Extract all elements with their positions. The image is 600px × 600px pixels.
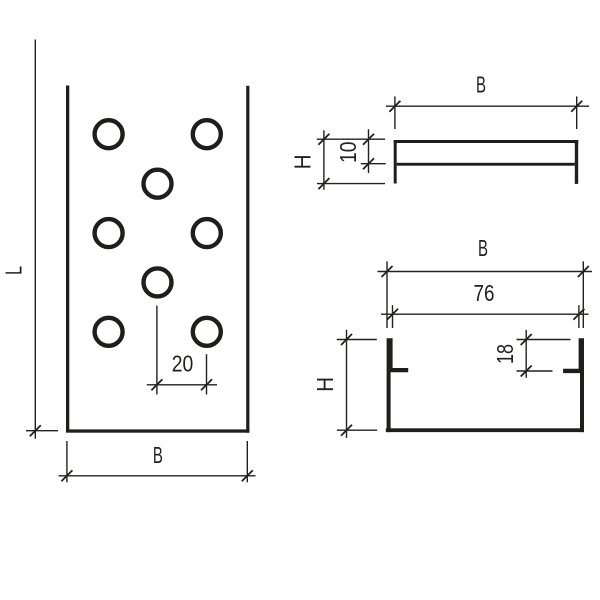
hole row5 right <box>193 318 221 346</box>
svg-text:L: L <box>1 266 27 275</box>
hole row5 left <box>95 318 123 346</box>
hole row1 left <box>95 120 123 148</box>
svg-text:18: 18 <box>492 344 518 364</box>
dimension 76 line <box>381 313 589 315</box>
dimension 10 lower tick <box>363 158 374 169</box>
dimension B plate tick left <box>61 470 72 481</box>
dimension B bottom tick left <box>382 266 393 277</box>
dimension H top view lower tick <box>318 178 329 189</box>
dimension B bottom line <box>378 271 593 273</box>
dimension H bottom view upper extension line <box>337 339 377 341</box>
dimension 20 line <box>147 384 217 386</box>
dimension B top extension line left <box>394 96 396 129</box>
dimension H bottom view lower tick <box>341 425 352 436</box>
dimension B bottom tick right <box>578 266 589 277</box>
dimension H top view line <box>323 130 325 189</box>
dimension 18 upper extension line <box>517 339 571 341</box>
svg-text:B: B <box>153 442 163 468</box>
dimension 76 extension line right <box>578 305 580 328</box>
dimension B bottom extension line left <box>386 261 388 328</box>
top profile left wall <box>394 140 397 184</box>
svg-text:H: H <box>312 377 338 392</box>
svg-text:B: B <box>478 235 488 261</box>
dimension 76 extension line left <box>392 305 394 328</box>
dimension L tick <box>30 425 41 436</box>
hole row4 center <box>144 268 172 296</box>
dimension 76 tick right <box>573 309 584 320</box>
channel right wall with lip <box>563 338 584 432</box>
channel left wall with lip <box>387 338 409 432</box>
svg-text:10: 10 <box>335 142 361 164</box>
dimension 18 lower tick <box>521 366 532 377</box>
dimension 76 tick left <box>387 309 398 320</box>
svg-text:H: H <box>290 154 316 169</box>
dimension 10 upper tick <box>363 134 374 145</box>
svg-text:76: 76 <box>474 280 495 306</box>
dimension 20 extension line left <box>156 306 158 395</box>
plate left edge <box>66 86 69 433</box>
dimension H top view upper extension line <box>317 138 385 140</box>
dimension H bottom view upper tick <box>341 334 352 345</box>
top profile right wall <box>575 140 578 184</box>
dimension 20 tick right <box>201 379 212 390</box>
dimension H bottom view lower extension line <box>337 429 377 431</box>
plate bottom edge <box>66 429 249 432</box>
hole row1 right <box>193 120 221 148</box>
dimension B bottom extension line right <box>582 261 584 328</box>
top profile inner line <box>397 163 575 166</box>
dimension B top tick left <box>389 101 400 112</box>
dimension H bottom view line <box>346 330 348 438</box>
svg-text:B: B <box>476 71 486 97</box>
dimension 18 lower extension line <box>517 370 553 372</box>
hole row2 center <box>144 170 172 198</box>
dimension L line <box>34 40 36 439</box>
top profile top flange <box>394 140 579 143</box>
dimension B plate line <box>59 475 256 477</box>
svg-text:20: 20 <box>172 351 194 377</box>
plate right edge <box>246 86 249 433</box>
dimension 10 line <box>368 129 370 173</box>
dimension 20 tick left <box>151 379 162 390</box>
dimension 10 lower extension line <box>361 163 386 165</box>
dimension H top view lower extension line <box>317 183 385 185</box>
hole row3 right <box>193 219 221 247</box>
dimension B top extension line right <box>576 96 578 129</box>
dimension 18 line <box>525 330 527 378</box>
dimension B plate extension line right <box>246 441 248 482</box>
dimension L extension line <box>26 430 58 432</box>
dimension 18 upper tick <box>521 334 532 345</box>
dimension B top line <box>386 105 589 107</box>
dimension B plate extension line left <box>66 441 68 482</box>
hole row3 left <box>95 219 123 247</box>
channel bottom <box>386 428 584 432</box>
dimension B plate tick right <box>242 470 253 481</box>
dimension 20 extension line right <box>206 354 208 394</box>
dimension H top view upper tick <box>318 134 329 145</box>
dimension B top tick right <box>571 101 582 112</box>
